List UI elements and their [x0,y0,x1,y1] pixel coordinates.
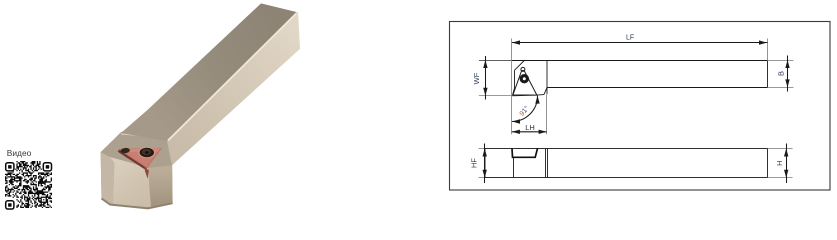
bar right edge [767,61,769,88]
svg-text:LF: LF [626,35,634,42]
B dim [787,56,789,92]
svg-text:WF: WF [472,72,481,84]
extension lines side [479,149,793,178]
head bottom shadow edge [102,198,173,208]
svg-text:B: B [777,71,786,76]
head chamfer [515,60,525,70]
WF dim [485,56,487,100]
tool bar front face [167,12,300,165]
91 arc [512,96,538,122]
head left edge [512,70,514,95]
labels [470,35,786,169]
insert corner recess [120,147,130,153]
svg-text:HF: HF [470,158,479,168]
insert top [119,149,161,168]
head back chamfer highlight [121,134,171,138]
bar bottom edge [547,87,768,89]
head front facet [110,157,151,207]
HF + H dims [483,144,789,184]
LH dim [512,131,547,133]
screw outer ring [138,147,155,158]
cutting edge bottom [512,95,544,96]
screw head [140,148,154,158]
dimension lines [483,40,790,134]
head base [101,132,173,208]
svg-text:LH: LH [525,123,535,132]
bar end edge sliver [298,13,300,49]
tool bar top face [121,3,298,141]
head top face [101,131,172,170]
svg-text:H: H [775,160,784,165]
insert tip drip [145,167,149,179]
insert top-right light rim [123,148,161,152]
QR code [5,161,52,208]
pocket diagonal [544,87,547,94]
head left facet [101,152,115,206]
extension lines (gray) [479,39,794,135]
highlight arris [168,13,297,141]
insert shadow side (dark maroon lower-left) [118,150,148,174]
head right facet [148,165,173,207]
head/shank junction [546,60,548,94]
pocket thick [512,149,538,158]
insert plan [513,67,537,95]
top edge + WF extension [479,60,768,62]
